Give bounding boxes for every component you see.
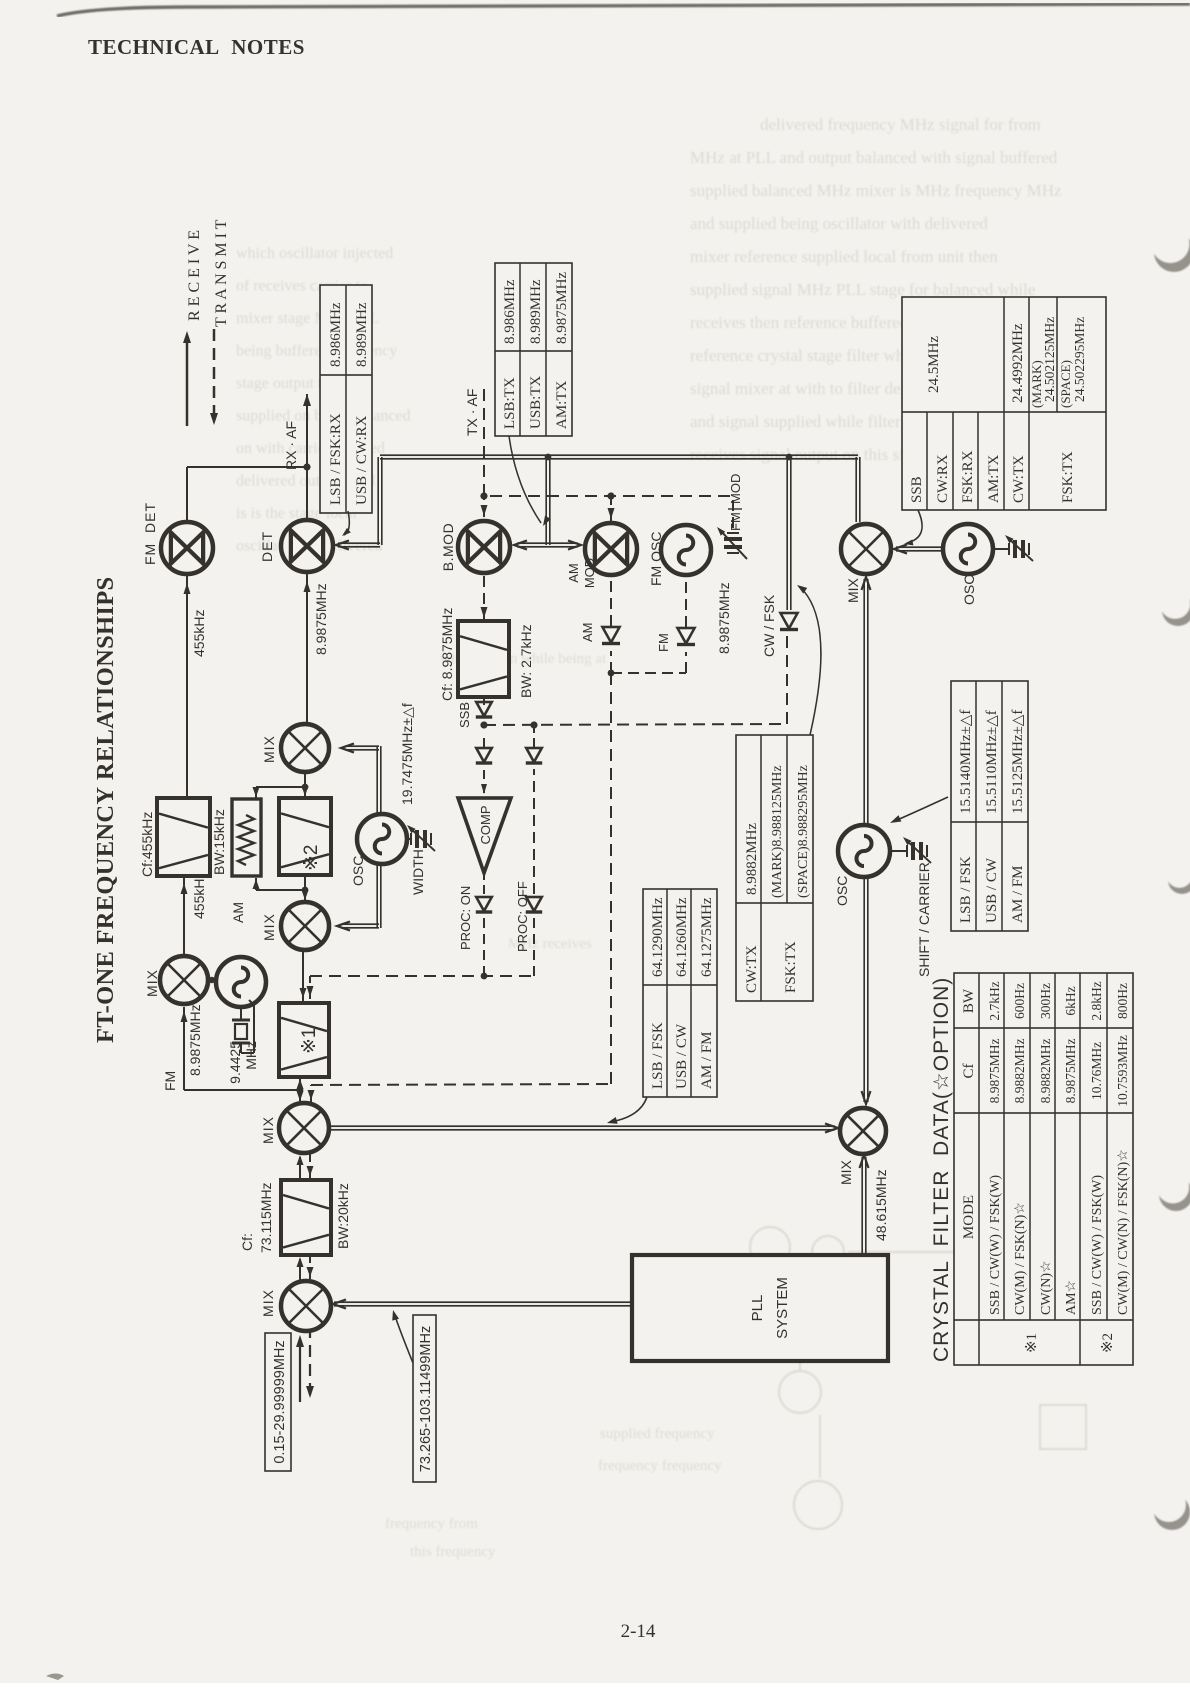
wire PLL to MIX5 48.615MHz	[865, 1157, 867, 1255]
svg-text:※1: ※1	[1024, 1333, 1040, 1353]
table TX/RX 24.5MHz SSB CW FSK AM	[902, 297, 1106, 510]
svg-text:8.9875MHz: 8.9875MHz	[313, 583, 329, 655]
filter box opt2	[279, 798, 331, 875]
svg-text:8.989MHz: 8.989MHz	[528, 279, 544, 344]
legend RECEIVE arrow	[186, 339, 188, 426]
wire TX bus dashed horizontal	[610, 673, 612, 1084]
filter F73 Cf:73.115MHz BW:20kHz	[281, 1180, 331, 1255]
svg-text:CW(N)☆: CW(N)☆	[1039, 1260, 1054, 1315]
bleed-through PLL diagram shapes	[750, 1227, 1130, 1529]
wire MIX2 to MIX5 line	[330, 1129, 835, 1131]
svg-text:CRYSTAL FILTER DATA(☆OPTION): CRYSTAL FILTER DATA(☆OPTION)	[930, 977, 953, 1362]
wire width osc lower loop	[380, 864, 382, 928]
svg-text:COMP: COMP	[478, 806, 493, 845]
mixer MIXa third mixer	[281, 902, 329, 950]
mixer MIX2 second RX mixer	[279, 1103, 329, 1153]
bottom left page mark	[46, 1674, 64, 1681]
junction PROC OFF tee	[530, 721, 537, 728]
antenna input solid	[299, 1339, 301, 1402]
wire TX AF to AM MOD dashed	[610, 496, 612, 522]
svg-text:frequency frequency: frequency frequency	[598, 1458, 722, 1474]
wire opt2 to junction	[304, 787, 306, 798]
junction FM tee	[297, 1087, 304, 1094]
wire into B.MOD dashed	[483, 496, 485, 517]
svg-text:AM:TX: AM:TX	[986, 455, 1002, 504]
svg-text:FM: FM	[656, 633, 671, 652]
wire B.MOD to F898 dashed	[483, 573, 485, 621]
svg-text:300Hz: 300Hz	[1038, 983, 1053, 1019]
trimmer OSC3 adjust	[1013, 540, 1017, 558]
svg-text:T R A N S M I T: T R A N S M I T	[213, 219, 230, 327]
svg-text:64.1275MHz: 64.1275MHz	[699, 897, 715, 977]
svg-text:CW(M) / CW(N) / FSK(N)☆: CW(M) / CW(N) / FSK(N)☆	[1116, 1149, 1131, 1315]
svg-text:OSC: OSC	[834, 876, 850, 906]
wire MIXb to DET	[306, 574, 308, 724]
wire D4 to D5 dashed	[533, 769, 535, 894]
svg-text:MOD: MOD	[728, 474, 743, 504]
wire junction to opt2	[304, 877, 306, 890]
block PLL SYSTEM	[632, 1255, 888, 1361]
svg-text:AM: AM	[566, 563, 581, 583]
svg-text:FM: FM	[728, 512, 743, 531]
svg-text:2.8kHz: 2.8kHz	[1089, 981, 1104, 1020]
wire CW diode to SSB bus dashed	[786, 631, 788, 724]
svg-text:9.4425: 9.4425	[227, 1041, 243, 1084]
svg-text:AM / FM: AM / FM	[699, 1031, 715, 1089]
wire F73-MIX2 dashed	[309, 1153, 311, 1178]
wire AM MOD output dashed	[610, 575, 612, 626]
wire MIX2 dashed from TX bus	[310, 1085, 312, 1102]
svg-text:PROC: OFF: PROC: OFF	[515, 881, 530, 952]
wire TX trunk vertical right side	[381, 457, 383, 545]
svg-text:15.5125MHz±△f: 15.5125MHz±△f	[1010, 710, 1026, 814]
wire FM diode to AM bus dashed	[685, 652, 687, 673]
svg-text:6kHz: 6kHz	[1063, 986, 1078, 1015]
svg-text:800Hz: 800Hz	[1115, 983, 1130, 1019]
mixer MIXb fourth mixer	[281, 724, 329, 772]
wire MIX1-F73 solid	[299, 1259, 301, 1281]
svg-text:8.9882MHz: 8.9882MHz	[1012, 1039, 1027, 1104]
svg-text:and supplied being oscillator: and supplied being oscillator with deliv…	[690, 214, 988, 233]
svg-text:FM OSC: FM OSC	[648, 532, 664, 586]
table TX carrier LSB USB AM 8.9MHz	[495, 263, 572, 436]
table 64MHz injection LSB USB AM	[643, 889, 717, 1097]
svg-text:which oscillator injected: which oscillator injected	[236, 245, 393, 262]
resistor AM path box	[232, 799, 261, 876]
svg-text:Cf:455kHz: Cf:455kHz	[139, 812, 155, 877]
svg-text:24.5MHz: 24.5MHz	[926, 336, 942, 393]
svg-text:8.9875MHz: 8.9875MHz	[987, 1039, 1002, 1104]
label box 0.15-29.99999MHz	[265, 1333, 291, 1471]
svg-text:FSK:RX: FSK:RX	[960, 450, 976, 503]
svg-text:CW:RX: CW:RX	[935, 454, 951, 503]
svg-text:24.502295MHz: 24.502295MHz	[1072, 317, 1087, 402]
wire DET to RX AF arrow	[306, 394, 308, 520]
wire TX bus dashed vertical	[311, 1084, 611, 1085]
filter F898 Cf:8.9875MHz BW:2.7kHz	[458, 621, 509, 697]
mixer MIX3 TX up-mixer	[841, 524, 891, 574]
leader 24.5 table to MIX3 wire	[907, 510, 922, 543]
svg-text:USB / CW: USB / CW	[984, 857, 1000, 923]
svg-text:8.9875MHz: 8.9875MHz	[716, 582, 732, 654]
label box 73.265-103.11499MHz	[413, 1315, 436, 1482]
diode SSB switch	[476, 702, 492, 716]
diode AM switch	[602, 627, 619, 642]
svg-text:R E C E I V E: R E C E I V E	[186, 230, 203, 321]
wire TX trunk into DET	[338, 546, 380, 548]
svg-text:frequency from: frequency from	[385, 1516, 478, 1532]
bleed-through paragraph upper right	[690, 115, 1062, 464]
wire OSC3 to trimmer	[993, 548, 1008, 550]
svg-text:(SPACE): (SPACE)	[1058, 360, 1073, 408]
svg-text:64.1290MHz: 64.1290MHz	[650, 897, 666, 977]
svg-text:LSB:TX: LSB:TX	[502, 377, 518, 429]
svg-text:DET: DET	[259, 531, 275, 562]
wire PROC bus into filter1 dashed	[309, 976, 311, 999]
svg-text:8.9875MHz: 8.9875MHz	[1063, 1039, 1078, 1104]
svg-text:73.265-103.11499MHz: 73.265-103.11499MHz	[418, 1326, 434, 1472]
antenna output dashed	[309, 1331, 311, 1395]
oscillator OSC2 carrier 15.51MHz	[838, 825, 890, 877]
junction AM FM bus	[608, 670, 615, 677]
diode D3 PROC ON	[476, 897, 492, 911]
resistor zigzag	[238, 815, 254, 865]
svg-text:600Hz: 600Hz	[1012, 983, 1027, 1019]
svg-text:mixer reference supplied local: mixer reference supplied local from unit…	[690, 247, 998, 266]
wire FM line solid	[184, 1089, 300, 1091]
wire TX/RX long line MIX5 to MIX3	[867, 579, 869, 1102]
mixer MIX1 first RX mixer	[281, 1281, 331, 1331]
svg-text:24.4992MHz: 24.4992MHz	[1010, 323, 1026, 403]
svg-text:※2: ※2	[301, 845, 322, 872]
svg-text:PLL: PLL	[749, 1295, 766, 1322]
svg-text:MODE: MODE	[961, 1195, 977, 1239]
svg-text:LSB / FSK: LSB / FSK	[958, 856, 974, 923]
mixer MIX5 TX mixer	[840, 1108, 886, 1154]
junction AM MOD branch	[607, 492, 614, 499]
svg-text:64.1260MHz: 64.1260MHz	[674, 897, 690, 977]
svg-text:being buffered frequency: being buffered frequency	[236, 343, 397, 360]
filter box opt1	[279, 1003, 329, 1077]
svg-text:BW:15kHz: BW:15kHz	[211, 809, 227, 875]
svg-text:Cf: 8.9875MHz: Cf: 8.9875MHz	[439, 608, 455, 701]
svg-text:AM:TX: AM:TX	[554, 381, 570, 430]
svg-text:AM / FM: AM / FM	[1010, 865, 1026, 923]
svg-text:LSB / FSK: LSB / FSK	[650, 1022, 666, 1089]
svg-text:CW:TX: CW:TX	[1011, 455, 1027, 503]
junction PROC ON bus	[481, 973, 488, 980]
leader RX table to DET	[344, 511, 349, 535]
svg-text:supplied balanced MHz mixer is: supplied balanced MHz mixer is MHz frequ…	[690, 181, 1062, 200]
wire F73-MIX2 solid	[299, 1157, 301, 1180]
svg-text:B.MOD: B.MOD	[440, 523, 456, 571]
wire OSC2 to trimmer	[890, 850, 906, 852]
svg-text:SYSTEM: SYSTEM	[774, 1277, 791, 1339]
svg-text:10.7593MHz: 10.7593MHz	[1115, 1035, 1130, 1107]
oscillator WIDTH OSC	[357, 814, 407, 864]
svg-text:this frequency: this frequency	[410, 1544, 496, 1560]
svg-text:FT-ONE FREQUENCY RELATIONSHIPS: FT-ONE FREQUENCY RELATIONSHIPS	[92, 577, 119, 1043]
svg-text:FM DET: FM DET	[142, 502, 158, 565]
diode D4 proc off in	[526, 748, 542, 762]
table CW FSK TX 8.9882MHz	[736, 735, 813, 1001]
svg-text:OSC: OSC	[350, 856, 366, 886]
svg-text:RX · AF: RX · AF	[283, 421, 299, 470]
crystal X1 9.4425MHz	[240, 1007, 242, 1020]
junction MIX4-OSC4	[208, 979, 216, 981]
svg-text:USB / CW: USB / CW	[674, 1023, 690, 1089]
junction TX trunk CW branch	[786, 454, 793, 461]
diode CW/FSK switch	[780, 613, 797, 628]
amplifier COMP speech processor	[458, 798, 511, 873]
wire B.MOD carrier input from trunk	[549, 457, 551, 545]
svg-text:24.502125MHz: 24.502125MHz	[1042, 317, 1057, 402]
svg-text:455kHz: 455kHz	[191, 872, 207, 919]
trimmer WIDTH adjust	[407, 838, 412, 840]
leader 15.51 table to OSC2	[895, 797, 948, 821]
svg-text:AM: AM	[580, 623, 595, 643]
svg-text:AM☆: AM☆	[1064, 1280, 1079, 1315]
svg-text:SSB / CW(W) / FSK(W): SSB / CW(W) / FSK(W)	[1090, 1175, 1105, 1315]
svg-text:8.9882MHz: 8.9882MHz	[744, 823, 760, 895]
page top edge shadow	[57, 4, 1190, 16]
svg-text:19.7475MHz±△f: 19.7475MHz±△f	[399, 703, 415, 805]
wire CW branch from trunk	[790, 457, 792, 610]
wire carrier split to AM MOD	[548, 546, 578, 548]
wire junction to MIXb	[304, 772, 306, 787]
wire TX trunk long run	[380, 458, 858, 460]
svg-text:0.15-29.99999MHz: 0.15-29.99999MHz	[272, 1340, 288, 1463]
wire SSB bus dashed vertical	[484, 724, 787, 725]
svg-text:10.76MHz: 10.76MHz	[1089, 1042, 1104, 1100]
svg-text:FSK:TX: FSK:TX	[783, 941, 799, 993]
oscillator OSC4 9.4425MHz	[216, 957, 266, 1007]
svg-text:MIX: MIX	[144, 969, 160, 997]
diode D2 comp in	[476, 748, 492, 762]
diode FM switch	[677, 628, 694, 643]
wire TX trunk to MIX3	[855, 457, 857, 522]
svg-text:delivered frequency MHz signal: delivered frequency MHz signal for from	[760, 115, 1041, 134]
svg-text:※1: ※1	[299, 1028, 320, 1055]
table carrier 15.51MHz LSB USB AM	[951, 681, 1028, 931]
junction TX AF	[480, 492, 487, 499]
wire F455 to FM DET	[186, 574, 188, 798]
wire D5 to bus dashed	[533, 918, 535, 976]
svg-text:8.986MHz: 8.986MHz	[502, 279, 518, 344]
svg-text:CW / FSK: CW / FSK	[761, 594, 777, 657]
svg-text:CW(M) / FSK(N)☆: CW(M) / FSK(N)☆	[1013, 1202, 1028, 1315]
svg-text:MIX: MIX	[260, 1116, 276, 1144]
junction TX trunk B.MOD branch	[545, 454, 552, 461]
detector FM DET	[161, 522, 213, 574]
svg-text:AM: AM	[230, 902, 246, 923]
wire SSB dot to D2 dashed	[483, 733, 485, 747]
svg-text:MOD: MOD	[582, 558, 597, 588]
svg-text:MIX: MIX	[261, 913, 277, 941]
wire MIX2 to filter1 solid	[299, 1079, 301, 1103]
svg-text:48.615MHz: 48.615MHz	[873, 1169, 889, 1241]
svg-text:73.115MHz: 73.115MHz	[258, 1182, 274, 1253]
junction SSB bus	[480, 721, 487, 728]
wire MIX1-F73 dashed	[309, 1255, 311, 1279]
wire MIX4 to filter F455	[183, 876, 185, 956]
svg-text:SSB / CW(W) / FSK(W): SSB / CW(W) / FSK(W)	[988, 1175, 1003, 1315]
svg-text:BW:20kHz: BW:20kHz	[335, 1183, 351, 1249]
wire resistor left leg	[256, 889, 305, 891]
svg-text:8.986MHz: 8.986MHz	[328, 302, 344, 367]
svg-text:SSB: SSB	[457, 702, 472, 728]
wire D2 to COMP dashed	[483, 769, 485, 793]
svg-text:TX · AF: TX · AF	[464, 389, 480, 436]
svg-text:(SPACE)8.988295MHz: (SPACE)8.988295MHz	[796, 765, 811, 898]
leader 8.9882 table to CW line	[800, 587, 821, 735]
trimmer FM MOD	[724, 545, 742, 549]
svg-text:※2: ※2	[1100, 1333, 1116, 1353]
diode D5 PROC OFF	[526, 897, 542, 911]
leader 73 label to PLL line	[394, 1313, 413, 1363]
svg-text:FSK:TX: FSK:TX	[1060, 451, 1076, 503]
svg-text:OSC: OSC	[961, 575, 977, 605]
svg-text:MIX: MIX	[845, 577, 861, 603]
svg-text:Cf:: Cf:	[239, 1233, 255, 1251]
table RX carrier frequencies LSB/FSK:RX USB/CW:RX	[320, 285, 372, 513]
wire to FM MOD trimmer dashed	[732, 496, 734, 528]
svg-text:BW: BW	[961, 988, 977, 1013]
wire width osc upper loop	[380, 746, 382, 814]
svg-text:TECHNICAL NOTES: TECHNICAL NOTES	[88, 35, 305, 59]
leader 64 table to line	[610, 1097, 647, 1122]
wire TX AF dashed	[483, 388, 485, 496]
wire AM diode to bus dashed	[610, 651, 612, 673]
svg-text:8.9875MHz: 8.9875MHz	[187, 1004, 203, 1076]
wire carrier split to B.MOD	[517, 546, 548, 548]
svg-text:15.5140MHz±△f: 15.5140MHz±△f	[958, 710, 974, 814]
svg-text:8.989MHz: 8.989MHz	[354, 302, 370, 367]
wire filter1 to MIXa solid	[302, 952, 304, 1003]
wire PROC bus vertical dashed	[310, 975, 534, 977]
wire PLL to MIX1	[334, 1301, 632, 1303]
wire COMP to D3 dashed	[483, 873, 485, 894]
svg-text:MHz at PLL and output balanced: MHz at PLL and output balanced with sign…	[690, 148, 1058, 167]
wire FM DET output to RX junction	[186, 467, 188, 522]
oscillator FM OSC	[661, 525, 711, 575]
svg-text:15.5110MHz±△f: 15.5110MHz±△f	[984, 710, 1000, 814]
wire resistor right leg	[255, 787, 257, 799]
wire FM OSC output dashed	[685, 575, 687, 627]
svg-text:USB:TX: USB:TX	[528, 375, 544, 429]
svg-text:(MARK)8.988125MHz: (MARK)8.988125MHz	[770, 765, 785, 898]
svg-text:MHz: MHz	[243, 1041, 259, 1070]
leader TX carrier table to B.MOD	[509, 436, 541, 523]
svg-text:MIX: MIX	[838, 1159, 854, 1185]
oscillator OSC3 24.5MHz	[943, 524, 993, 574]
svg-text:SSB: SSB	[909, 476, 925, 503]
svg-text:supplied signal MHz PLL stage: supplied signal MHz PLL stage for balanc…	[690, 280, 1035, 299]
trimmer SHIFT/CARRIER	[911, 842, 915, 860]
table CRYSTAL FILTER DATA	[954, 973, 1133, 1365]
svg-text:Cf: Cf	[961, 1063, 977, 1078]
legend TRANSMIT arrow	[213, 323, 215, 417]
svg-text:8.9882MHz: 8.9882MHz	[1038, 1039, 1053, 1104]
wire D3 to junction dashed	[483, 918, 485, 976]
modulator AM MOD	[585, 523, 637, 575]
svg-text:MIX: MIX	[260, 1289, 276, 1317]
binder hole crescents right edge	[1151, 225, 1190, 1530]
svg-text:2.7kHz: 2.7kHz	[987, 981, 1002, 1020]
svg-text:LSB / FSK:RX: LSB / FSK:RX	[328, 413, 344, 505]
wire TX AF bus dashed down	[490, 495, 733, 497]
mixer MIX4 second FM mixer	[160, 956, 208, 1004]
bleed-through fragments	[385, 651, 722, 1560]
svg-text:2-14: 2-14	[621, 1621, 656, 1642]
svg-text:MIX: MIX	[261, 735, 277, 763]
svg-text:455kHz: 455kHz	[191, 610, 207, 657]
filter F455 Cf:455kHz BW:15kHz	[157, 798, 210, 876]
balanced modulator B.MOD	[458, 521, 510, 573]
svg-text:SHIFT / CARRIER: SHIFT / CARRIER	[916, 862, 932, 977]
svg-text:WIDTH: WIDTH	[410, 849, 426, 895]
svg-text:USB / CW:RX: USB / CW:RX	[354, 415, 370, 505]
svg-text:8.9875MHz: 8.9875MHz	[554, 272, 570, 344]
svg-text:FM: FM	[162, 1071, 178, 1091]
svg-text:BW: 2.7kHz: BW: 2.7kHz	[518, 624, 534, 698]
wire FM junction to MIX4	[183, 1007, 185, 1090]
wire OSC3 to MIX3	[896, 550, 943, 552]
svg-text:PROC: ON: PROC: ON	[458, 886, 473, 950]
bleed-through paragraph mid left	[236, 245, 411, 555]
wire PROC OFF branch dashed	[533, 725, 535, 747]
svg-text:CW:TX: CW:TX	[744, 945, 760, 993]
wire MIXa resistor junction	[304, 890, 306, 902]
detector DET product detector	[281, 520, 333, 572]
svg-text:supplied frequency: supplied frequency	[600, 1426, 715, 1442]
